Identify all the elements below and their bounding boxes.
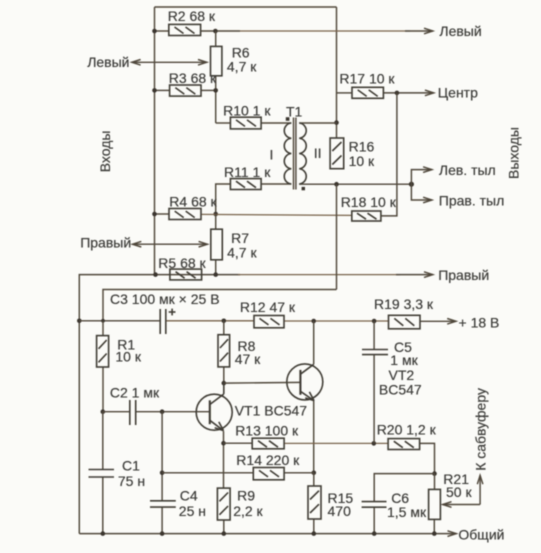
wire C1 bottom <box>102 477 104 534</box>
node rail R21 <box>432 531 437 536</box>
svg-text:Левый: Левый <box>87 54 129 70</box>
node C5 bottom R20 <box>372 441 377 446</box>
wire Прав. тыл branch <box>411 184 432 200</box>
resistor R2 <box>169 24 201 35</box>
capacitor C6 <box>362 502 387 508</box>
wire C1 top <box>102 412 104 470</box>
node rear outputs branch <box>409 182 414 187</box>
wire R21 wiper arrow <box>443 504 480 506</box>
wire C5 top vertical <box>373 321 375 350</box>
svg-text:R12 47 к: R12 47 к <box>240 299 296 315</box>
transistor VT1 <box>196 383 232 431</box>
wire R2 left <box>155 30 169 32</box>
resistor R10 <box>230 117 261 129</box>
svg-text:Входы: Входы <box>97 131 113 173</box>
wire R11 left corner down <box>216 184 231 214</box>
node VT1 collector / VT2 base <box>222 381 227 386</box>
node R3 right <box>213 88 218 93</box>
node R20 C6 R21 <box>432 471 437 476</box>
wire lower link to C3 rail <box>103 290 337 321</box>
svg-text:T1: T1 <box>286 103 303 119</box>
node VT1 emitter R13 <box>221 441 226 446</box>
capacitor C1 <box>89 470 115 478</box>
svg-text:25 н: 25 н <box>179 503 206 519</box>
wire K subwoofer output arrow <box>479 475 481 504</box>
svg-text:Правый: Правый <box>80 235 131 251</box>
transformer T1 secondary polarity dot <box>302 187 305 190</box>
svg-text:I: I <box>270 147 274 163</box>
node C5 top <box>372 319 377 324</box>
node R5 right <box>213 272 218 277</box>
svg-text:4,7 к: 4,7 к <box>227 58 257 74</box>
wire secondary top to node <box>299 122 336 124</box>
svg-text:R17 10 к: R17 10 к <box>339 70 395 86</box>
capacitor C5 <box>362 350 388 355</box>
capacitor C3 plus sign <box>169 309 176 316</box>
wire Центр node down to R18 right <box>381 93 397 216</box>
node secondary top <box>334 120 339 125</box>
node R1 top <box>101 319 105 323</box>
capacitor C4 <box>150 501 176 507</box>
resistor R20 <box>388 439 420 450</box>
wire R8 bottom to VT1 collector node <box>223 367 225 383</box>
wire supply rail C3 to R12 <box>166 320 254 322</box>
node R3 left <box>152 88 157 93</box>
wire R4 node to R18 left <box>201 214 352 215</box>
node rail C1 <box>101 531 106 536</box>
resistor R8 <box>218 335 230 367</box>
node R2 right <box>213 29 218 34</box>
capacitor C3 <box>160 309 166 334</box>
resistor R5 <box>170 269 202 280</box>
node C2 left <box>101 409 106 414</box>
svg-text:1 мк: 1 мк <box>390 352 418 368</box>
wire VT1 emitter vertical <box>223 431 225 488</box>
node C4 R14 <box>160 471 165 476</box>
wire C2 left <box>103 411 130 413</box>
svg-text:1,5 мк: 1,5 мк <box>387 504 427 520</box>
transformer T1 core <box>293 118 295 190</box>
resistor R7 <box>211 229 223 260</box>
wire R8 top vertical <box>223 321 225 335</box>
svg-text:R16: R16 <box>349 139 375 155</box>
svg-text:Левый: Левый <box>439 23 481 39</box>
wire right vertical to secondary top <box>336 7 338 138</box>
resistor R15 <box>308 486 321 519</box>
wire R14 left long <box>162 472 253 474</box>
svg-text:470: 470 <box>328 503 352 519</box>
wire R13 right to R20 <box>284 442 388 444</box>
svg-text:R5 68 к: R5 68 к <box>158 255 206 271</box>
svg-text:R13 100 к: R13 100 к <box>235 422 299 438</box>
svg-text:C2 1 мк: C2 1 мк <box>110 385 160 401</box>
resistor R19 <box>389 315 421 329</box>
svg-text:75 н: 75 н <box>118 473 145 489</box>
wire Левый input arrow <box>132 61 207 63</box>
wire Левый output <box>201 30 240 32</box>
wire VT2 collector vertical <box>313 321 315 364</box>
resistor R14 <box>253 468 284 480</box>
wire node to R6 top <box>215 31 217 46</box>
svg-text:II: II <box>314 145 322 161</box>
node R4 right <box>213 212 218 217</box>
svg-text:BC547: BC547 <box>379 382 422 398</box>
svg-text:Прав. тыл: Прав. тыл <box>439 193 505 209</box>
wire to R10 <box>216 122 231 124</box>
node R16 bottom <box>334 182 339 187</box>
svg-text:R2 68 к: R2 68 к <box>168 8 216 24</box>
svg-text:R4 68 к: R4 68 к <box>169 194 217 210</box>
node rail C4 <box>160 531 165 536</box>
wire Правый input arrow <box>133 243 208 245</box>
svg-text:R14 220 к: R14 220 к <box>236 452 300 468</box>
node R2 left <box>152 29 157 34</box>
wire node to C6 top <box>374 474 434 502</box>
svg-text:C3 100 мк × 25 В: C3 100 мк × 25 В <box>110 291 220 307</box>
potentiometer R21 <box>429 489 441 519</box>
resistor R4 <box>169 209 201 220</box>
resistor R12 <box>254 316 284 328</box>
wire R15 top <box>313 473 315 486</box>
wire R4 node to R7 top <box>215 214 217 229</box>
wire R20 right corner down <box>420 443 435 473</box>
wire R15 bottom <box>313 519 315 534</box>
svg-text:+ 18 В: + 18 В <box>459 314 500 330</box>
resistor R6 <box>211 46 222 75</box>
svg-text:R9: R9 <box>237 487 255 503</box>
node VT2 emitter R14 R15 <box>312 471 317 476</box>
wire R19 to +18V <box>420 320 456 322</box>
wire ground rail Общий <box>79 533 456 535</box>
svg-text:C4: C4 <box>180 487 198 503</box>
resistor R11 <box>230 179 261 190</box>
svg-text:C1: C1 <box>122 458 140 474</box>
wire R9 bottom <box>223 520 225 534</box>
wire secondary bottom node down <box>336 184 338 289</box>
svg-text:VT1 BC547: VT1 BC547 <box>235 403 308 419</box>
node rail C6 <box>372 531 377 536</box>
transformer T1 primary polarity dot <box>286 117 290 121</box>
wire C5 bottom vertical <box>373 355 375 444</box>
capacitor C2 <box>130 400 136 425</box>
node left bus to rail <box>77 319 82 324</box>
wire Лев. тыл branch <box>411 170 432 185</box>
wire VT2 base <box>224 381 301 384</box>
wire secondary bottom to node <box>299 183 411 185</box>
wire C4 top vertical <box>161 412 163 501</box>
wire R6 bottom to R3 node <box>215 76 217 123</box>
svg-text:2,2 к: 2,2 к <box>233 503 263 519</box>
node R5 left <box>153 272 158 277</box>
node rail R9 <box>222 531 227 536</box>
wire top rail <box>155 6 337 8</box>
svg-text:50 к: 50 к <box>446 484 472 500</box>
wire Правый output line <box>79 275 240 534</box>
transformer T1 secondary winding II <box>299 123 306 184</box>
node Центр <box>395 91 400 96</box>
transformer T1 primary winding I <box>284 123 291 184</box>
node VT2 collector top <box>311 319 316 324</box>
wire C4 bottom <box>161 507 163 533</box>
resistor R9 <box>217 488 230 520</box>
svg-text:10 к: 10 к <box>115 348 141 364</box>
wire R11 right to primary bottom <box>261 183 291 185</box>
wire R17 left <box>337 92 353 94</box>
svg-text:Лев. тыл: Лев. тыл <box>439 162 496 178</box>
svg-text:R19 3,3 к: R19 3,3 к <box>374 296 434 312</box>
svg-text:Выходы: Выходы <box>506 127 522 179</box>
wire R14 right <box>284 472 314 474</box>
svg-text:R11 1 к: R11 1 к <box>224 164 271 180</box>
node R4 left <box>152 212 157 217</box>
wire C2 right to VT1 base <box>136 411 210 413</box>
wire R10 right to primary top <box>261 122 291 124</box>
node C4 top <box>160 409 165 414</box>
wire VT2 emitter vertical <box>313 401 315 473</box>
resistor R18 <box>352 211 381 221</box>
svg-text:R20 1,2 к: R20 1,2 к <box>377 421 437 437</box>
wire R1 bottom <box>102 367 104 412</box>
wire R13 left <box>224 442 253 444</box>
svg-text:R18 10 к: R18 10 к <box>341 194 397 210</box>
resistor R1 <box>97 336 109 367</box>
wire R4 left <box>155 213 170 215</box>
svg-text:47 к: 47 к <box>235 351 261 367</box>
wire R3 left <box>155 89 170 91</box>
node R8 top <box>222 319 227 324</box>
transistor VT2 <box>287 364 323 401</box>
wire R1 top <box>102 321 104 336</box>
wire R17 right to Центр <box>383 92 433 94</box>
wire left input bus <box>154 7 156 275</box>
svg-text:Центр: Центр <box>438 85 478 101</box>
resistor R17 <box>352 87 383 98</box>
wire supply rail R12 to R19 <box>284 320 389 322</box>
wire R3 right <box>201 89 216 91</box>
svg-text:R10 1 к: R10 1 к <box>223 103 271 119</box>
resistor R13 <box>252 438 284 449</box>
svg-text:R3 68 к: R3 68 к <box>169 70 217 86</box>
wire C6 bottom <box>373 507 375 533</box>
svg-text:4,7 к: 4,7 к <box>227 244 257 260</box>
wire supply rail left of C3 <box>79 320 160 322</box>
svg-text:К сабвуферу: К сабвуферу <box>473 388 489 471</box>
wire R7 bottom <box>215 260 217 275</box>
resistor R16 <box>330 138 344 169</box>
svg-text:Правый: Правый <box>438 267 489 283</box>
svg-text:10 к: 10 к <box>349 153 375 169</box>
node rail R15 <box>312 531 317 536</box>
resistor R3 <box>170 85 201 96</box>
svg-text:Общий: Общий <box>458 526 504 542</box>
wire R21 bottom <box>433 519 435 533</box>
wire R21 top <box>434 474 436 490</box>
